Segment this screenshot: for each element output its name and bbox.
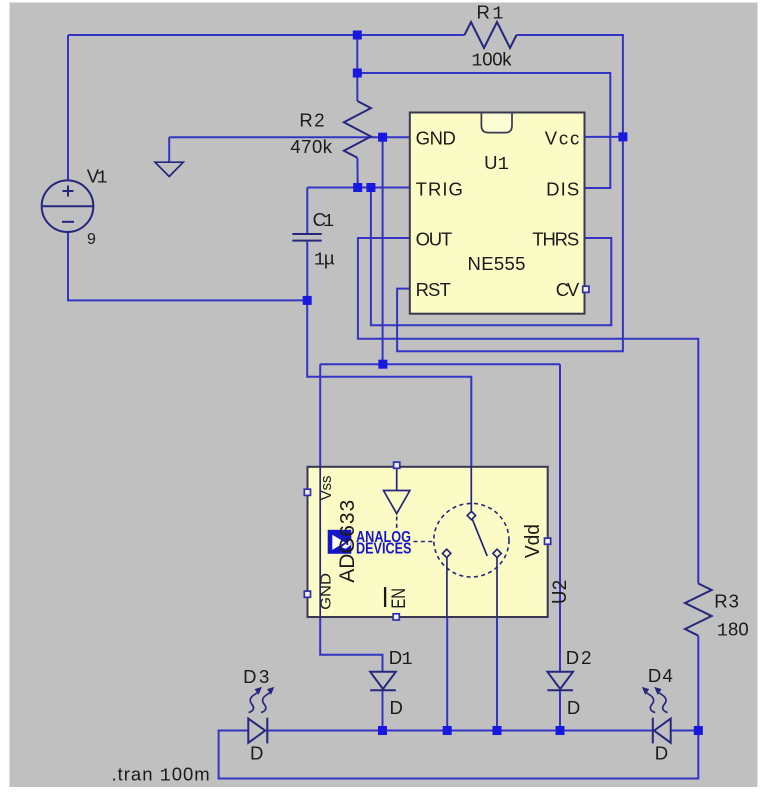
U2 pin squares unconnected bbox=[304, 489, 310, 495]
wire V1- down and right bbox=[68, 232, 307, 301]
svg-text:100k: 100k bbox=[471, 49, 512, 72]
junction node TRIG-C1 bbox=[353, 183, 362, 192]
diode D2 bbox=[547, 672, 573, 691]
wire top rail to R1 left bbox=[68, 34, 465, 36]
wire DIS loop bbox=[357, 73, 610, 188]
wire U2 bottom to D1 bbox=[320, 617, 382, 672]
pin CV unconnected square bbox=[583, 286, 589, 292]
junction node TRIG-THRS bbox=[366, 183, 375, 192]
junction node GND pin bbox=[378, 133, 387, 142]
junction node DIS rail bbox=[353, 69, 362, 78]
svg-text:1µ: 1µ bbox=[314, 247, 335, 270]
junction node rail SW-right bbox=[493, 726, 502, 735]
wire GND junction down to GND bus bbox=[382, 137, 384, 364]
wire switch left throw inside U2 bbox=[446, 556, 448, 617]
U2 switch left contact bbox=[442, 549, 450, 557]
U2 dashed link logo-switch bbox=[414, 541, 435, 543]
junction node Vcc bbox=[618, 132, 627, 141]
resistor R1 bbox=[465, 22, 517, 48]
U1 notch bbox=[481, 114, 512, 133]
svg-text:D3: D3 bbox=[243, 666, 269, 687]
wire OUT to R3 bbox=[358, 238, 698, 584]
wire LED rail bbox=[267, 730, 653, 732]
U2 switch right contact bbox=[493, 549, 501, 557]
wire node R1left down bbox=[356, 35, 358, 73]
wire R3 bottom bbox=[697, 636, 699, 731]
junction node rail D2 bbox=[556, 726, 565, 735]
svg-text:470k: 470k bbox=[290, 136, 332, 157]
wire switch right throw to rail bbox=[496, 617, 498, 731]
svg-text:OUT: OUT bbox=[416, 229, 453, 250]
svg-text:D2: D2 bbox=[566, 647, 592, 668]
wire GND bus down left into U2 bbox=[319, 364, 321, 467]
U2 switch lever bbox=[472, 519, 487, 556]
svg-text:NE555: NE555 bbox=[468, 253, 526, 274]
wire bottom return loop bbox=[219, 731, 699, 779]
wire Vcc down to RST bus bbox=[397, 137, 623, 351]
wire Vcc pin bbox=[585, 136, 623, 138]
wire switch left throw to rail bbox=[446, 617, 448, 731]
svg-text:Vss: Vss bbox=[318, 476, 335, 501]
svg-text:R2: R2 bbox=[299, 110, 324, 131]
IC U2 ADG633 box bbox=[308, 467, 548, 617]
U2 dashed switch circle bbox=[434, 503, 509, 577]
svg-text:D: D bbox=[567, 697, 580, 718]
svg-text:GND: GND bbox=[416, 128, 456, 149]
svg-text:DEVICES: DEVICES bbox=[356, 541, 412, 558]
svg-text:Vdd: Vdd bbox=[522, 524, 544, 558]
wire GND bus bbox=[320, 363, 560, 365]
svg-text:ADG633: ADG633 bbox=[335, 499, 361, 582]
capacitor C1 bbox=[292, 234, 321, 241]
svg-text:THRS: THRS bbox=[532, 229, 579, 250]
wire C1 top stem bbox=[306, 188, 308, 234]
voltage source V1 bbox=[42, 180, 94, 232]
svg-text:.tran 100m: .tran 100m bbox=[112, 764, 210, 787]
svg-text:D: D bbox=[250, 742, 263, 763]
wire GND pin bbox=[383, 136, 410, 138]
svg-text:D: D bbox=[655, 742, 668, 763]
svg-text:R3: R3 bbox=[714, 590, 739, 611]
svg-text:Vcc: Vcc bbox=[545, 128, 579, 149]
svg-text:EN: EN bbox=[389, 588, 410, 609]
svg-text:D4: D4 bbox=[648, 665, 673, 686]
svg-text:D1: D1 bbox=[389, 647, 413, 670]
wire D4 right to R3 node bbox=[671, 730, 699, 732]
svg-text:CV: CV bbox=[556, 279, 580, 300]
junction node rail SW-left bbox=[443, 726, 452, 735]
svg-text:U1: U1 bbox=[484, 152, 509, 175]
wire ground to GND junction bbox=[169, 136, 382, 138]
U2 switch top contact bbox=[467, 511, 475, 519]
junction node rail D1 bbox=[378, 726, 387, 735]
junction node C1 bottom bbox=[303, 296, 312, 305]
wire D2 bottom stem bbox=[559, 690, 561, 730]
junction node top rail bbox=[353, 31, 362, 40]
wire R2 top stem bbox=[356, 73, 358, 101]
wire D2 feed from GND bus bbox=[559, 364, 561, 672]
wire TRIG row bbox=[307, 187, 410, 189]
junction node GND bus bbox=[378, 360, 387, 369]
wire ground stem bbox=[168, 137, 170, 161]
svg-text:RST: RST bbox=[416, 279, 451, 300]
IC U1 NE555 box bbox=[410, 113, 585, 314]
svg-text:C1: C1 bbox=[313, 209, 335, 232]
wire R1 right to corner bbox=[517, 35, 623, 137]
LED D3 bbox=[248, 687, 274, 744]
wire switch common inside U2 bbox=[470, 467, 472, 513]
LED D4 bbox=[642, 687, 671, 744]
wire TRIG to THRS bus bbox=[371, 188, 611, 326]
svg-text:U2: U2 bbox=[549, 579, 573, 604]
svg-text:GND: GND bbox=[318, 573, 335, 610]
wire switch right throw inside U2 bbox=[496, 556, 498, 617]
wire D1 bottom stem bbox=[382, 690, 384, 730]
wire V1+ to top rail bbox=[67, 35, 69, 181]
svg-text:D: D bbox=[390, 697, 403, 718]
svg-text:9: 9 bbox=[87, 231, 96, 248]
wire C1 bottom stem bbox=[306, 242, 308, 301]
ground bbox=[155, 162, 183, 176]
svg-text:DIS: DIS bbox=[546, 179, 579, 200]
resistor R2 bbox=[344, 101, 371, 158]
wire R2 bottom stem bbox=[356, 158, 358, 188]
U2 dashed link triangle-logo bbox=[396, 517, 398, 529]
ANALOG DEVICES logo square bbox=[328, 530, 352, 554]
svg-text:TRIG: TRIG bbox=[416, 179, 463, 200]
diode D1 bbox=[370, 672, 396, 691]
U2 internal vss line (navy over yellow) bbox=[319, 467, 321, 617]
svg-text:V1: V1 bbox=[87, 166, 108, 189]
U2 buffer triangle bbox=[384, 468, 410, 514]
resistor R3 bbox=[685, 584, 712, 636]
wire Vminus bus bbox=[307, 300, 471, 466]
svg-text:180: 180 bbox=[717, 619, 749, 642]
junction node rail R3-D4 bbox=[694, 726, 703, 735]
